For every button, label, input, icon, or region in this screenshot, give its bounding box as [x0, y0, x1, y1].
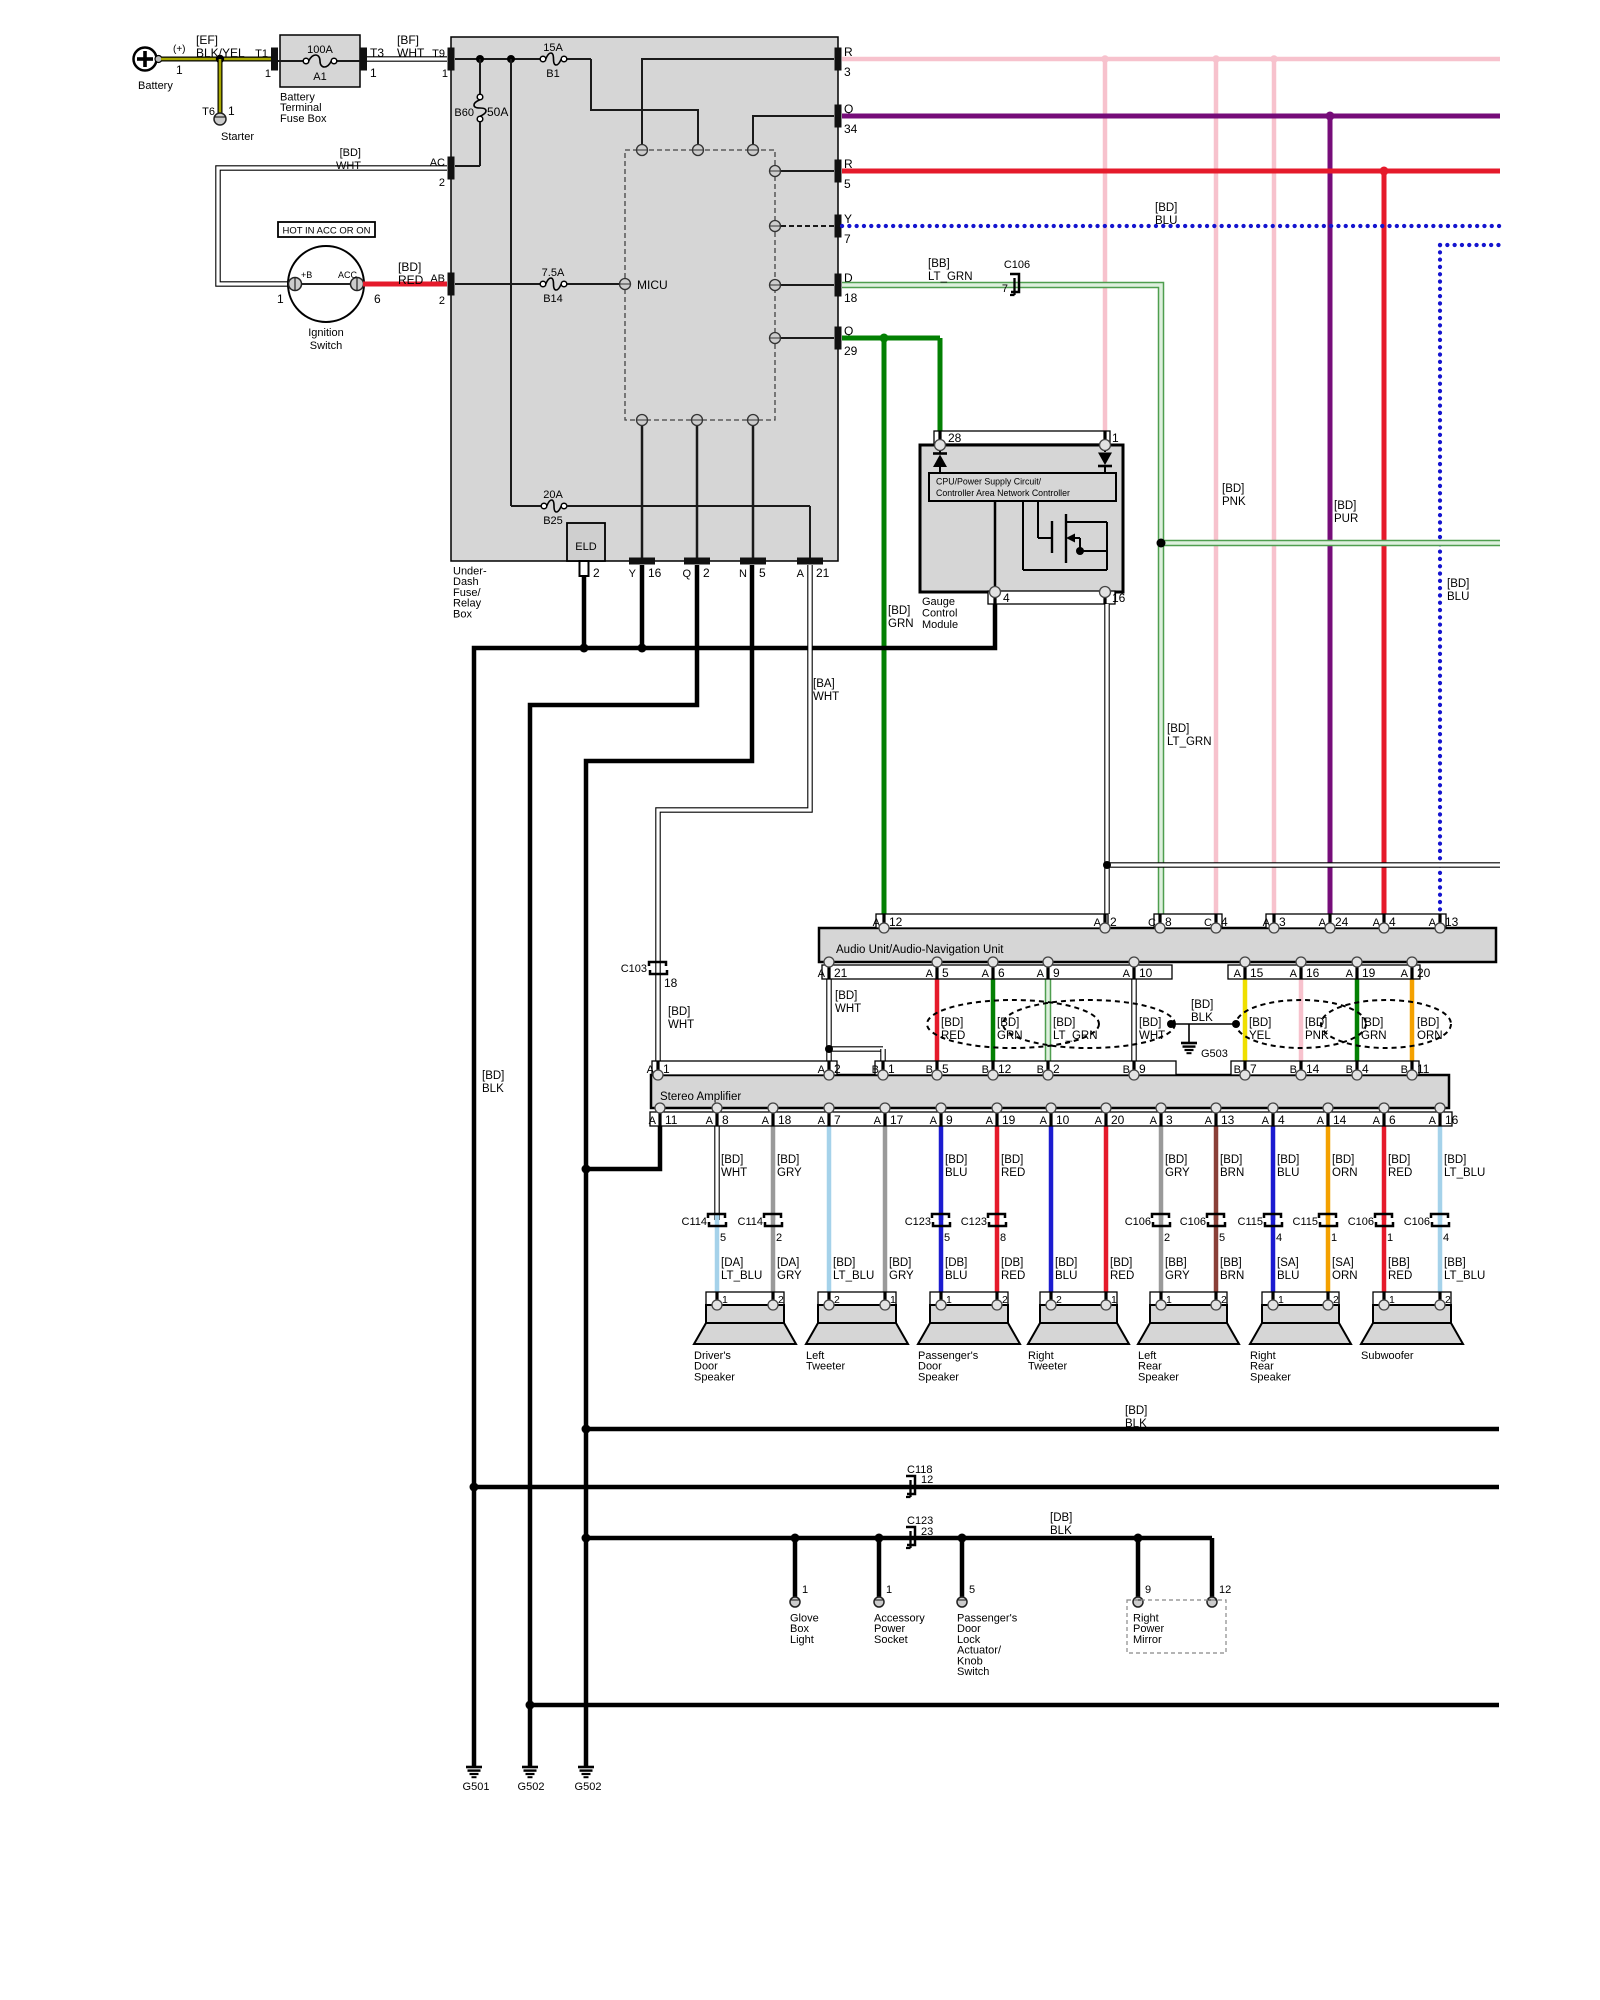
svg-text:C106: C106 [1404, 1216, 1430, 1228]
branch drop at x=1138 [1133, 1534, 1165, 1646]
svg-text:13: 13 [1221, 1113, 1235, 1127]
gauge module bottom connector bar pins 4 and 16 [988, 591, 1126, 605]
connector R3 [835, 45, 854, 79]
twisted pair shield right [1236, 1000, 1451, 1048]
connector C114 pin2 inline [738, 1214, 783, 1244]
wire [BD] GRN gauge module pin4 ground run [474, 604, 995, 1766]
svg-text:A: A [874, 1115, 882, 1127]
svg-text:C106: C106 [1348, 1216, 1374, 1228]
svg-text:4: 4 [1443, 1232, 1449, 1244]
connector Y7 [835, 212, 853, 246]
svg-text:Tweeter: Tweeter [1028, 1361, 1067, 1373]
svg-text:[BD]: [BD] [997, 1017, 1019, 1029]
svg-text:1: 1 [1331, 1232, 1337, 1244]
connector C103 pin18 inline [621, 962, 678, 990]
svg-text:21: 21 [816, 566, 830, 580]
svg-text:BLU: BLU [1055, 1270, 1077, 1282]
svg-text:BLK: BLK [1050, 1525, 1072, 1537]
svg-text:[BD]: [BD] [1334, 500, 1356, 512]
wire [BD] RED audio A5 to amp B5 [935, 962, 940, 1075]
svg-text:13: 13 [1445, 915, 1459, 929]
wire [BD] WHT audio A10 to amp B9 [1131, 962, 1137, 1075]
svg-text:[BD]: [BD] [1249, 1017, 1271, 1029]
svg-text:WHT: WHT [835, 1003, 861, 1015]
svg-text:5: 5 [759, 566, 766, 580]
ignition switch [277, 246, 381, 352]
svg-text:[BD]: [BD] [1361, 1017, 1383, 1029]
svg-text:2: 2 [1164, 1232, 1170, 1244]
svg-text:[BB]: [BB] [1220, 1257, 1242, 1269]
wire [BD] YEL audio A15 to amp B7 [1243, 962, 1248, 1075]
svg-text:Audio Unit/Audio-Navigation Un: Audio Unit/Audio-Navigation Unit [836, 944, 1004, 956]
gauge module top connector bar pins 28 and 1 [934, 431, 1119, 445]
svg-text:[SA]: [SA] [1332, 1257, 1354, 1269]
battery terminal fuse box [278, 35, 360, 125]
right power mirror dashed outline [1127, 1600, 1226, 1653]
svg-text:GRY: GRY [1165, 1270, 1190, 1282]
gauge module pin circles [935, 440, 1111, 598]
svg-text:+B: +B [301, 270, 312, 280]
fuse B60 50A branch [454, 59, 508, 166]
wire amp output at x=829 [829, 1126, 874, 1304]
svg-text:4: 4 [1278, 1113, 1285, 1127]
wire: MICU to R5 [781, 170, 834, 172]
svg-text:WHT: WHT [336, 160, 361, 172]
node pink junction 1105 [1101, 55, 1109, 63]
svg-text:[BD]: [BD] [1125, 1405, 1147, 1417]
svg-text:Switch: Switch [310, 340, 342, 352]
wire [BB] LT_GRN from D18 [842, 258, 1500, 914]
svg-text:CPU/Power Supply Circuit/: CPU/Power Supply Circuit/ [936, 477, 1042, 487]
svg-text:12: 12 [1219, 1584, 1231, 1596]
svg-text:1: 1 [176, 63, 183, 77]
svg-text:HOT IN ACC OR ON: HOT IN ACC OR ON [283, 226, 371, 237]
wire [BD] PUR from Q34 [842, 112, 1500, 915]
wire amp output at x=717 [717, 1126, 762, 1304]
fuse B1 15A [540, 42, 567, 80]
svg-text:11: 11 [665, 1113, 678, 1127]
wire Y16 to ground run [640, 565, 645, 648]
svg-text:MICU: MICU [637, 278, 668, 292]
svg-text:WHT: WHT [1139, 1030, 1165, 1042]
node Y16 junction [638, 644, 647, 653]
wire [BD] BLU dotted from Y7 [842, 202, 1500, 227]
svg-text:2: 2 [439, 295, 445, 307]
svg-text:A: A [986, 1115, 994, 1127]
svg-text:2: 2 [439, 177, 445, 189]
svg-text:B14: B14 [543, 293, 563, 305]
svg-text:5: 5 [720, 1232, 726, 1244]
wire amp output at x=1161 [1161, 1126, 1190, 1304]
stereo amplifier bottom connector bar [649, 1112, 1459, 1127]
wire amp output at x=885 [885, 1126, 914, 1304]
svg-text:14: 14 [1306, 1062, 1320, 1076]
wire [BD] PNK audio A16 to amp B14 [1299, 962, 1304, 1075]
wire: MICU internal to Q34 [753, 116, 834, 145]
svg-text:6: 6 [998, 966, 1005, 980]
svg-text:A: A [1429, 1115, 1437, 1127]
svg-text:A: A [1346, 968, 1354, 980]
svg-text:Tweeter: Tweeter [806, 1361, 845, 1373]
svg-text:7: 7 [1002, 283, 1008, 295]
speaker: right tweeter [1028, 1292, 1129, 1373]
svg-text:24: 24 [1335, 915, 1349, 929]
svg-text:BLU: BLU [1447, 591, 1469, 603]
svg-text:Subwoofer: Subwoofer [1361, 1350, 1414, 1362]
svg-text:Speaker: Speaker [1250, 1371, 1291, 1383]
svg-text:[BD]: [BD] [340, 147, 361, 159]
svg-text:[BD]: [BD] [1191, 999, 1213, 1011]
svg-text:1: 1 [802, 1584, 808, 1596]
wire amp output at x=997 [997, 1126, 1025, 1304]
wire to starter [218, 59, 223, 113]
svg-text:21: 21 [834, 966, 848, 980]
svg-text:5: 5 [844, 177, 851, 191]
svg-text:[DA]: [DA] [777, 1257, 799, 1269]
wire [BF] WHT T3 to T9 [367, 33, 447, 60]
svg-text:1: 1 [442, 68, 448, 80]
svg-text:[BD]: [BD] [777, 1154, 799, 1166]
wire amp output at x=1051 [1051, 1126, 1077, 1304]
wire [BD] BLU dotted branch to audio A13 [1440, 245, 1500, 914]
svg-text:Y: Y [629, 568, 637, 580]
svg-text:7: 7 [1250, 1062, 1257, 1076]
wire amp output at x=1384 [1384, 1126, 1412, 1304]
svg-text:18: 18 [778, 1113, 792, 1127]
svg-text:12: 12 [998, 1062, 1012, 1076]
svg-text:[BD]: [BD] [835, 990, 857, 1002]
svg-text:ORN: ORN [1417, 1030, 1443, 1042]
svg-text:LT_BLU: LT_BLU [833, 1270, 874, 1282]
wire [DB] BLK accessory branch [582, 1512, 1213, 1543]
svg-text:6: 6 [1389, 1113, 1396, 1127]
wire [BD] RED ignition ACC to AB [363, 260, 447, 287]
wire gauge module CPU to pin 4 [994, 501, 997, 592]
svg-text:17: 17 [890, 1113, 904, 1127]
wire [BD] BLK label for G501 run [482, 1070, 504, 1095]
wire amp output at x=941 [941, 1126, 967, 1304]
fuse B25 20A [541, 489, 567, 527]
svg-text:[BD]: [BD] [945, 1154, 967, 1166]
audio unit bottom connector bars [818, 965, 1431, 980]
svg-text:A: A [1123, 968, 1131, 980]
svg-text:A: A [1317, 1115, 1325, 1127]
svg-text:RED: RED [1001, 1167, 1025, 1179]
svg-text:[BB]: [BB] [1165, 1257, 1187, 1269]
svg-text:[BD]: [BD] [1165, 1154, 1187, 1166]
svg-text:[BD]: [BD] [721, 1154, 743, 1166]
wire amp output at x=1106 [1106, 1126, 1134, 1304]
node pink junction 1274 [1270, 55, 1278, 63]
svg-text:2: 2 [593, 566, 600, 580]
svg-text:A: A [1262, 1115, 1270, 1127]
svg-text:LT_BLU: LT_BLU [721, 1270, 762, 1282]
connector Q29 [835, 324, 858, 358]
svg-text:(+): (+) [173, 44, 186, 55]
svg-text:20A: 20A [543, 489, 563, 501]
svg-text:RED: RED [1388, 1270, 1412, 1282]
junction node battery/starter [216, 55, 224, 63]
svg-text:3: 3 [1166, 1113, 1173, 1127]
svg-text:A: A [762, 1115, 770, 1127]
svg-text:[BD]: [BD] [1277, 1154, 1299, 1166]
svg-text:A: A [930, 1115, 938, 1127]
svg-text:5: 5 [1219, 1232, 1225, 1244]
svg-text:A: A [1401, 968, 1409, 980]
node lt-green junction [1157, 539, 1166, 548]
svg-text:4: 4 [1003, 591, 1010, 605]
svg-text:Starter: Starter [221, 131, 254, 143]
svg-text:WHT: WHT [668, 1019, 694, 1031]
svg-text:[BD]: [BD] [1388, 1154, 1410, 1166]
wire [EF] BLK/YEL battery to T1 [161, 33, 271, 60]
svg-text:Gauge: Gauge [922, 596, 955, 608]
svg-text:Q: Q [682, 568, 691, 580]
ground G503 with [BD] BLK [1167, 999, 1240, 1060]
audio unit top connector bars [873, 914, 1459, 929]
svg-text:A: A [1150, 1115, 1158, 1127]
svg-text:A: A [818, 1115, 826, 1127]
connector N5 bottom [739, 558, 766, 581]
svg-text:[BD]: [BD] [1305, 1017, 1327, 1029]
svg-text:A: A [706, 1115, 714, 1127]
wire [BD] LT_GRN audio A9 to amp B2 [1045, 962, 1052, 1075]
ground G502 right [575, 1767, 602, 1793]
svg-text:[BD]: [BD] [1055, 1257, 1077, 1269]
svg-text:100A: 100A [307, 44, 333, 56]
svg-text:LT_BLU: LT_BLU [1444, 1167, 1485, 1179]
connector C123 pin5 inline [905, 1214, 950, 1244]
svg-text:Box: Box [453, 608, 472, 620]
svg-text:RED: RED [1001, 1270, 1025, 1282]
node pink junction 1216 [1212, 55, 1220, 63]
svg-text:C115: C115 [1238, 1216, 1263, 1228]
wire: MICU to Y7 (dashed) [781, 225, 834, 227]
wire [BA] WHT under-dash A21 to C103 to amp A1 [658, 565, 839, 1075]
svg-text:19: 19 [1002, 1113, 1016, 1127]
wire: AB to fuse B14 to MICU [455, 283, 619, 285]
connector Q34 [835, 102, 858, 136]
branch drop at x=962 [957, 1534, 1018, 1679]
svg-text:[BB]: [BB] [1388, 1257, 1410, 1269]
svg-text:11: 11 [1417, 1062, 1430, 1076]
svg-text:1: 1 [370, 66, 377, 80]
svg-text:4: 4 [1389, 915, 1396, 929]
wire [BD] GRN audio A19 to amp B4 [1355, 962, 1360, 1075]
svg-text:GRY: GRY [777, 1270, 802, 1282]
wire: MICU to D18 [781, 284, 834, 286]
wire: MICU to Q29 [781, 337, 834, 339]
svg-text:16: 16 [1306, 966, 1320, 980]
connector C106 pin2 inline [1125, 1214, 1170, 1244]
ground G501 [463, 1767, 490, 1793]
wire pink vertical to gauge module pin1 [1103, 59, 1108, 431]
svg-text:[BD]: [BD] [1447, 578, 1469, 590]
speaker: passenger's door speaker [918, 1292, 1020, 1383]
svg-text:Ignition: Ignition [308, 327, 343, 339]
wire [BD] GRN from Q29 [842, 334, 940, 915]
svg-text:C106: C106 [1180, 1216, 1206, 1228]
HOT IN ACC OR ON box [278, 222, 375, 237]
svg-text:GRY: GRY [889, 1270, 914, 1282]
wire [BD] GRN audio A6 to amp B12 [991, 962, 996, 1075]
svg-text:[BD]: [BD] [1155, 202, 1177, 214]
svg-text:C115: C115 [1293, 1216, 1318, 1228]
svg-text:3: 3 [844, 65, 851, 79]
svg-text:[BA]: [BA] [813, 678, 835, 690]
svg-text:5: 5 [942, 1062, 949, 1076]
svg-text:BLU: BLU [945, 1270, 967, 1282]
svg-text:[BD]: [BD] [1222, 483, 1244, 495]
svg-text:7: 7 [834, 1113, 841, 1127]
svg-text:2: 2 [834, 1062, 841, 1076]
svg-text:[BD]: [BD] [889, 1257, 911, 1269]
connector C106 pin4 inline [1404, 1214, 1449, 1244]
connector T9 [432, 48, 454, 81]
svg-text:BLK: BLK [1191, 1012, 1213, 1024]
svg-text:[BD]: [BD] [1444, 1154, 1466, 1166]
svg-text:N: N [739, 568, 747, 580]
svg-text:[BB]: [BB] [1444, 1257, 1466, 1269]
wire [BD] RED from R5 [842, 167, 1500, 915]
svg-text:15A: 15A [543, 42, 563, 54]
svg-text:16: 16 [648, 566, 662, 580]
svg-text:2: 2 [1110, 915, 1117, 929]
wire amp output at x=1216 [1216, 1126, 1244, 1304]
svg-text:16: 16 [1112, 591, 1126, 605]
starter terminal [202, 104, 254, 143]
svg-text:[BD]: [BD] [1001, 1154, 1023, 1166]
svg-text:BLU: BLU [1155, 215, 1177, 227]
connector A21 bottom [797, 558, 830, 581]
wire: long vertical to fuse B25 and connector A21 [511, 59, 542, 506]
svg-text:7.5A: 7.5A [542, 267, 565, 279]
svg-text:20: 20 [1417, 966, 1431, 980]
svg-text:T6: T6 [202, 106, 215, 118]
svg-text:[BD]: [BD] [398, 260, 421, 274]
svg-text:1: 1 [886, 1584, 892, 1596]
svg-text:B25: B25 [543, 515, 563, 527]
connector C118 pin12 inline [906, 1464, 933, 1497]
stereo amplifier box [651, 1075, 1449, 1108]
connector C115 pin4 inline [1238, 1214, 1283, 1244]
svg-text:[EF]: [EF] [196, 33, 218, 47]
svg-text:8: 8 [1000, 1232, 1006, 1244]
connector AC [430, 157, 455, 190]
svg-text:Mirror: Mirror [1133, 1634, 1162, 1646]
svg-text:WHT: WHT [721, 1167, 747, 1179]
svg-text:LT_GRN: LT_GRN [1167, 736, 1212, 748]
svg-text:5: 5 [942, 966, 949, 980]
wire [BD] WHT AC to ignition +B [218, 147, 447, 284]
svg-text:15: 15 [1250, 966, 1264, 980]
svg-text:[DB]: [DB] [1001, 1257, 1023, 1269]
svg-text:A: A [649, 1115, 657, 1127]
wire amp output at x=1440 [1440, 1126, 1485, 1304]
speaker: right rear speaker [1250, 1292, 1351, 1383]
svg-text:4: 4 [1221, 915, 1228, 929]
svg-text:[BD]: [BD] [1220, 1154, 1242, 1166]
svg-text:29: 29 [844, 344, 858, 358]
svg-text:1: 1 [663, 1062, 670, 1076]
svg-text:RED: RED [398, 273, 424, 287]
svg-text:B1: B1 [546, 68, 559, 80]
wire Q2 to G502 run [530, 565, 697, 1766]
wire: T9 feed to fuse B1 and MICU pin2 [455, 59, 698, 145]
svg-text:12: 12 [889, 915, 903, 929]
wire N5 to G502 run [586, 565, 752, 1766]
svg-text:A: A [926, 968, 934, 980]
svg-text:C123: C123 [905, 1216, 931, 1228]
svg-text:Module: Module [922, 619, 958, 631]
svg-text:[BD]: [BD] [1110, 1257, 1132, 1269]
connector C106 pin5 inline [1180, 1214, 1225, 1244]
connector T3 [360, 46, 384, 80]
audio unit bottom pins [824, 957, 1417, 967]
diode D1 at pin 28 [933, 450, 947, 473]
svg-text:14: 14 [1333, 1113, 1347, 1127]
svg-text:1: 1 [277, 292, 284, 306]
svg-text:Socket: Socket [874, 1634, 908, 1646]
svg-text:9: 9 [1139, 1062, 1146, 1076]
wire [BD] WHT gauge pin16 to audio A2 with branch [1103, 604, 1500, 914]
connector Y16 bottom [629, 558, 662, 581]
svg-text:[BD]: [BD] [1167, 723, 1189, 735]
svg-text:18: 18 [664, 976, 678, 990]
svg-text:4: 4 [1276, 1232, 1282, 1244]
svg-text:ACC: ACC [338, 270, 358, 280]
svg-text:Switch: Switch [957, 1666, 989, 1678]
svg-text:Speaker: Speaker [918, 1371, 959, 1383]
svg-text:Stereo Amplifier: Stereo Amplifier [660, 1091, 741, 1103]
wire: MICU pin to Y16 [641, 425, 644, 558]
audio unit box [819, 928, 1496, 962]
svg-text:34: 34 [844, 122, 858, 136]
svg-text:20: 20 [1111, 1113, 1125, 1127]
svg-text:RED: RED [1110, 1270, 1134, 1282]
MICU block [620, 145, 781, 426]
svg-text:[BD]: [BD] [482, 1070, 504, 1082]
svg-text:C123: C123 [961, 1216, 987, 1228]
junction node at 511,59 [507, 55, 515, 63]
svg-text:A: A [1234, 968, 1242, 980]
svg-text:Control: Control [922, 608, 957, 620]
gauge control module box [920, 445, 1123, 592]
svg-text:A: A [818, 968, 826, 980]
branch drop at x=879 [874, 1534, 925, 1646]
branch drop at x=1212 [1207, 1538, 1231, 1607]
svg-text:RED: RED [941, 1030, 965, 1042]
ground G502 left [518, 1767, 545, 1793]
wire amp output at x=1273 [1273, 1126, 1299, 1304]
wire amp output at x=773 [773, 1126, 802, 1304]
svg-text:Speaker: Speaker [1138, 1371, 1179, 1383]
svg-text:5: 5 [969, 1584, 975, 1596]
CPU/power supply circuit block [929, 473, 1116, 501]
junction node at 480,59 [476, 55, 484, 63]
stereo amplifier bottom pins [655, 1103, 1445, 1113]
diode D2 at pin 1 [1098, 450, 1112, 473]
svg-text:A: A [797, 568, 805, 580]
svg-text:C106: C106 [1004, 259, 1030, 271]
svg-text:LT_GRN: LT_GRN [1053, 1030, 1098, 1042]
node ELD junction [580, 644, 589, 653]
svg-text:Controller Area Network Contro: Controller Area Network Controller [936, 488, 1070, 498]
svg-text:RED: RED [1388, 1167, 1412, 1179]
svg-text:6: 6 [374, 292, 381, 306]
svg-text:2: 2 [776, 1232, 782, 1244]
svg-text:BLU: BLU [1277, 1167, 1299, 1179]
